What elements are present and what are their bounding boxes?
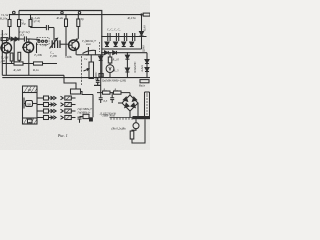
resistor R6 emitter (vertical) (10, 53, 13, 64)
transistor T3 (68, 39, 79, 55)
block diagram unit M (23, 86, 38, 93)
diode D3 (99, 55, 103, 78)
svg-text:ЦВ: ЦВ (26, 102, 31, 106)
electrolytic marks (105, 42, 134, 47)
wire riser joining buses (18, 11, 20, 20)
svg-text:R₇4к: R₇4к (56, 16, 64, 20)
svg-text:₂/0Б: ₂/0Б (0, 60, 5, 63)
jack column (83, 95, 93, 119)
svg-text:R₉15к: R₉15к (127, 16, 137, 20)
svg-text:М: М (27, 88, 31, 92)
wire switch common (36, 43, 38, 53)
wire caps to T3 base (60, 43, 68, 45)
capacitor C10 (94, 78, 101, 85)
svg-text:ком: ком (86, 42, 91, 46)
capacitor C2 coupling (31, 25, 55, 40)
resistor R9 (horizontal, right edge) (143, 13, 150, 16)
ground rail upper (2, 74, 64, 76)
svg-text:C₅0ф: C₅0ф (40, 43, 48, 47)
text labels (0, 13, 147, 138)
wire left rail (1, 30, 3, 75)
transformer Tr (145, 92, 150, 116)
resistor R18 (140, 80, 149, 83)
resistor R6' (horizontal) (14, 62, 23, 65)
power rail capacitors row (102, 33, 147, 49)
node terminal A (61, 12, 63, 14)
svg-text:R₂₄: R₂₄ (103, 88, 107, 91)
svg-text:Т₃/0Б: Т₃/0Б (34, 53, 42, 57)
svg-text:R₂10к: R₂10к (0, 16, 8, 20)
diode D4 (105, 51, 109, 55)
resistor R4 (18, 20, 21, 40)
node junction dots (6, 14, 128, 78)
transistor T1 (0, 39, 11, 64)
winding ticks (146, 94, 148, 114)
block diagram outer box (23, 93, 38, 125)
svg-text:А-244: А-244 (141, 65, 144, 73)
component box C11 (99, 74, 103, 78)
svg-text:50μ: 50μ (21, 21, 26, 25)
capacitor C7 (124, 33, 126, 41)
transformer core bar (133, 116, 151, 119)
resistor R2 (8, 15, 11, 39)
resistor block box (71, 89, 81, 94)
diode D5 (113, 51, 117, 55)
diode column D6 (125, 53, 129, 78)
transistor T2 (22, 39, 34, 64)
capacitor C12 (78, 117, 84, 123)
diode D1 (11, 37, 15, 41)
svg-text:ЦВ40: ЦВ40 (143, 45, 146, 53)
svg-text:Rв1к: Rв1к (138, 84, 146, 88)
wire base branch (8, 38, 24, 40)
capacitor C5 electrolytic pair (52, 40, 60, 48)
output row 4 (37, 116, 76, 120)
battery B1 (89, 117, 93, 121)
resistor R8 emitter (vertical) (18, 52, 21, 63)
svg-text:Гн(М9№)+: Гн(М9№)+ (77, 112, 91, 115)
svg-text:R₁₆10: R₁₆10 (112, 59, 120, 62)
resistor R19 (103, 91, 111, 94)
meter M1 (106, 53, 114, 78)
meter loop circuit (130, 119, 145, 143)
svg-text:Гн(СМ9№)+: Гн(СМ9№)+ (77, 108, 93, 111)
output row 3 (37, 109, 76, 113)
potentiometer R12 (84, 55, 94, 79)
output row 1 (37, 96, 76, 100)
block hatch band 2 (23, 118, 38, 124)
capacitor C11 (110, 93, 114, 103)
capacitor C8 (133, 33, 135, 41)
resistor R20 (114, 91, 122, 94)
output row 2 (37, 103, 76, 107)
resistor R1 (horizontal, left) (1, 38, 8, 41)
svg-text:R₇1к: R₇1к (32, 68, 39, 72)
resistor R5 (29, 15, 32, 28)
svg-text:Тр(МВ-30М)+(2М): Тр(МВ-30М)+(2М) (102, 78, 126, 82)
svg-text:R₁₇5: R₁₇5 (113, 70, 120, 73)
wire T3 emitter drop (76, 54, 88, 56)
rectifier output line (102, 52, 147, 54)
svg-text:Тр: Тр (81, 17, 85, 21)
meter M2 (133, 123, 139, 129)
wire cap rail top (102, 36, 147, 38)
svg-text:602ПС: 602ПС (95, 72, 98, 80)
svg-text:R₆140: R₆140 (13, 68, 22, 72)
wire collector bus T3 (86, 54, 105, 56)
block outputs (37, 96, 76, 120)
svg-text:‒ЛБВ-30М: ‒ЛБВ-30М (100, 114, 115, 118)
svg-text:Рис. 1: Рис. 1 (57, 134, 68, 138)
svg-text:C₂(C4): C₂(C4) (32, 19, 41, 23)
wire upper supply bus (19, 11, 102, 78)
step wire to blocks (64, 75, 76, 89)
wire lower row (2, 63, 57, 65)
wire drop at x142.5 (141, 15, 143, 32)
bridge rectifier VD (118, 93, 138, 118)
svg-text:R₈40: R₈40 (144, 25, 147, 32)
diode column D7 (145, 53, 149, 78)
resistor R7' (horizontal) (34, 62, 43, 65)
shield line (81, 56, 83, 85)
capacitor C5' (108, 33, 110, 41)
wire drop to power row (100, 78, 102, 93)
wire block drop (81, 92, 94, 95)
resistor R7a (65, 15, 68, 56)
wire lower supply bus (9, 14, 142, 16)
capacitor C6 (116, 33, 118, 41)
feedback curve (83, 50, 97, 53)
capacitor C9 (99, 93, 103, 103)
power resistors row (97, 92, 130, 94)
resistor R7b (76, 15, 79, 40)
switch contacts S1 (37, 38, 49, 45)
svg-text:²/0дБ: ²/0дБ (65, 55, 72, 59)
dashed screen vertical (99, 42, 101, 52)
block inner TsV (24, 98, 37, 109)
svg-text:R₂₅: R₂₅ (114, 88, 118, 91)
node input terminal (13, 11, 16, 14)
svg-text:Т₁/0Б: Т₁/0Б (1, 56, 9, 60)
trimmer arrow (50, 38, 58, 48)
svg-text:C₅ C₆ C₇ C₈: C₅ C₆ C₇ C₈ (107, 29, 120, 32)
capacitor C3 (24, 36, 30, 41)
secondary ticks (110, 118, 133, 120)
wire cap rail bottom (102, 48, 142, 50)
ground rail main (2, 77, 150, 79)
svg-text:Т₂/0Б: Т₂/0Б (50, 54, 57, 58)
diode D2 (15, 37, 18, 41)
node terminal B (78, 12, 80, 14)
node junction R9 (141, 14, 142, 15)
resistor Rv (130, 131, 134, 139)
svg-text:3С602ПС: 3С602ПС (134, 62, 137, 73)
